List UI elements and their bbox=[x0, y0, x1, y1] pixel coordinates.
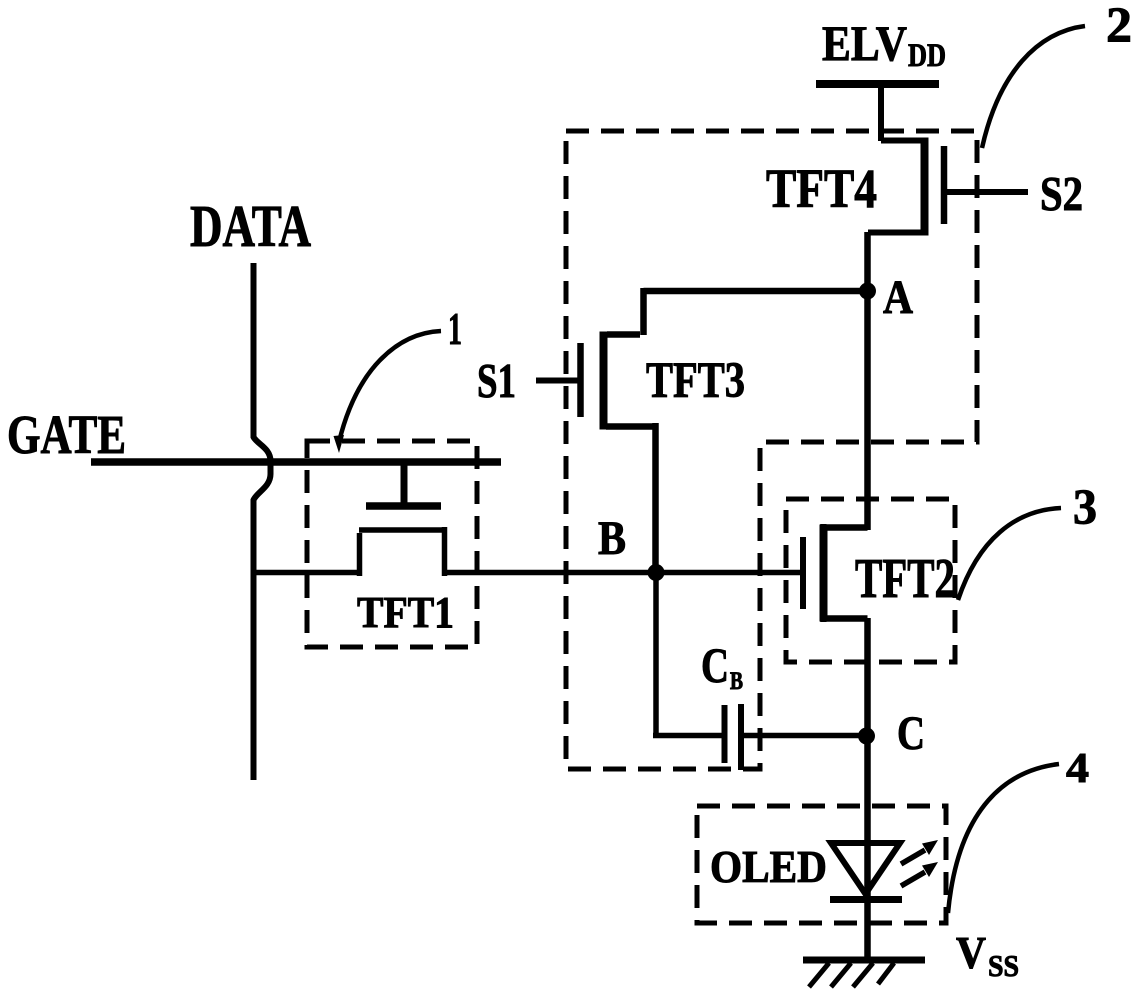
wire node B down to capacitor bbox=[653, 572, 722, 736]
wire S2 lead bbox=[947, 189, 1028, 195]
svg-text:DD: DD bbox=[908, 38, 946, 74]
light emission arrows bbox=[901, 840, 938, 886]
svg-text:C: C bbox=[701, 637, 729, 693]
ground bbox=[803, 960, 925, 987]
svg-text:A: A bbox=[883, 271, 913, 324]
wire main column TFT2 to ground bbox=[864, 618, 871, 959]
svg-text:1: 1 bbox=[448, 304, 462, 354]
transistor TFT4 bbox=[868, 138, 944, 236]
dashed box 2 region bbox=[566, 131, 977, 769]
transistor TFT2 bbox=[803, 524, 868, 622]
svg-text:TFT2: TFT2 bbox=[855, 548, 955, 610]
callout leader 3 bbox=[958, 508, 1061, 600]
node C bbox=[858, 728, 875, 745]
svg-text:OLED: OLED bbox=[710, 842, 827, 892]
svg-text:ELV: ELV bbox=[822, 15, 907, 71]
transistor TFT1 bbox=[253, 462, 802, 576]
callout leader 1 bbox=[334, 331, 442, 453]
wire main column TFT4 to TFT2 bbox=[864, 232, 871, 530]
callout leader 4 bbox=[948, 764, 1059, 913]
svg-text:2: 2 bbox=[1106, 0, 1132, 52]
wire capacitor to node C bbox=[744, 733, 867, 739]
diode OLED bbox=[830, 843, 902, 900]
capacitor CB bbox=[725, 704, 742, 770]
wire DATA column bbox=[254, 263, 271, 780]
node A bbox=[859, 283, 876, 300]
callout leader 2 bbox=[982, 26, 1085, 148]
wire S1 lead bbox=[536, 378, 578, 384]
svg-text:B: B bbox=[730, 668, 743, 695]
svg-text:TFT1: TFT1 bbox=[357, 588, 454, 637]
wire ELVDD stub bbox=[878, 84, 884, 141]
svg-text:TFT4: TFT4 bbox=[766, 158, 877, 219]
transistor TFT3 bbox=[581, 288, 869, 572]
dashed box 4 around OLED bbox=[697, 806, 946, 923]
svg-text:V: V bbox=[956, 928, 986, 978]
label VSS bbox=[956, 928, 1019, 983]
node B bbox=[648, 564, 665, 581]
dashed box 1 around TFT1 bbox=[307, 441, 477, 647]
wire GATE row bbox=[91, 458, 501, 466]
svg-text:3: 3 bbox=[1073, 478, 1097, 534]
label ELVDD bbox=[822, 15, 946, 74]
label CB bbox=[701, 637, 743, 695]
svg-text:SS: SS bbox=[988, 948, 1019, 983]
power rail ELVDD bbox=[816, 80, 939, 88]
svg-text:GATE: GATE bbox=[7, 404, 126, 465]
svg-text:S1: S1 bbox=[477, 353, 516, 408]
dashed box 3 around TFT2 bbox=[786, 499, 955, 662]
svg-text:TFT3: TFT3 bbox=[646, 353, 745, 409]
svg-text:DATA: DATA bbox=[190, 193, 311, 259]
svg-text:C: C bbox=[897, 707, 925, 760]
svg-text:4: 4 bbox=[1066, 746, 1089, 792]
svg-text:S2: S2 bbox=[1040, 166, 1083, 221]
svg-text:B: B bbox=[598, 512, 626, 565]
